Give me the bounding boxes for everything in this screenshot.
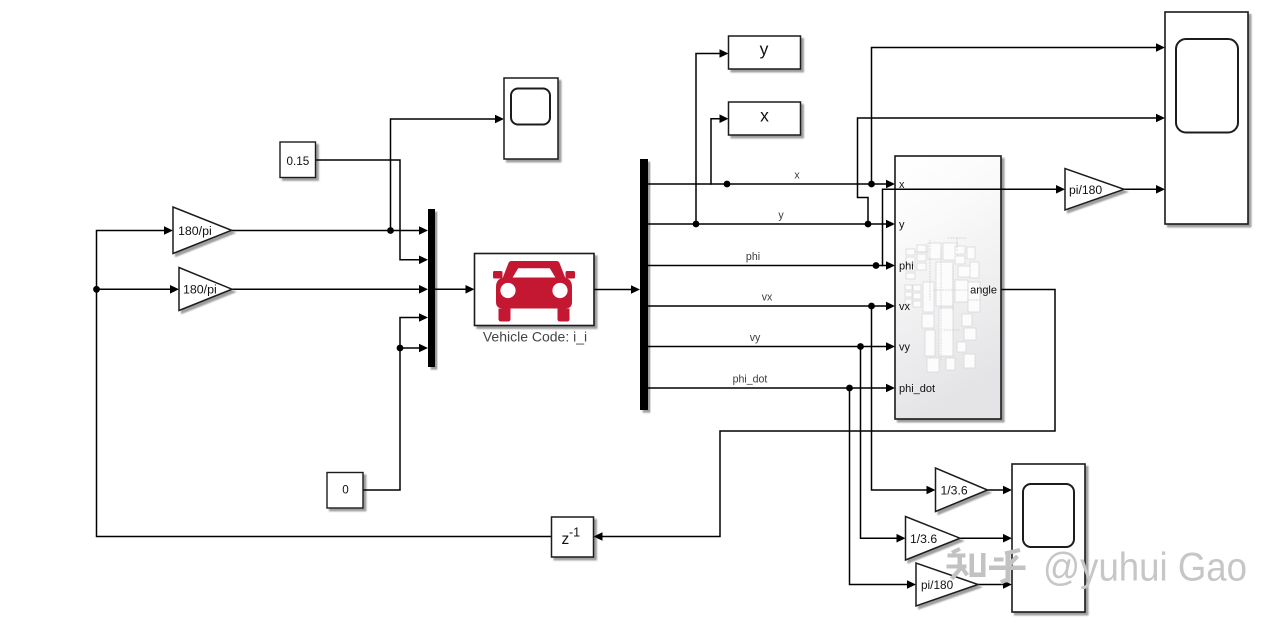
subsystem block — [895, 156, 1001, 419]
svg-text:@yuhui Gao: @yuhui Gao — [1043, 546, 1247, 590]
node 0-wire branch — [397, 345, 404, 352]
wire demux out y to subsystem — [648, 223, 887, 225]
scope block S1 (top left) — [504, 78, 558, 159]
wire gain G2 input arrowhead — [170, 285, 179, 294]
wire angle output feedback to z^-1 — [603, 290, 1055, 537]
gain 1/3.6 top — [936, 468, 988, 512]
svg-text:y: y — [760, 39, 769, 59]
svg-text:phi_dot: phi_dot — [899, 383, 935, 395]
wire branch vx to gain 1/3.6 top — [872, 306, 928, 490]
wire branch y to large scope input 2 — [858, 118, 1157, 224]
svg-text:vx: vx — [899, 301, 911, 313]
gain pi/180 top — [1065, 169, 1124, 211]
wire 0 constant up to mux inputs 4 and 5 — [363, 318, 420, 491]
wire branch phi_dot to gain pi/180 bottom — [850, 388, 909, 585]
svg-text:Vehicle Code: i_i: Vehicle Code: i_i — [483, 329, 587, 345]
svg-text:-1: -1 — [569, 526, 580, 540]
wire mux output to vehicle block — [435, 288, 466, 290]
svg-text:0: 0 — [342, 484, 349, 497]
svg-text:x: x — [760, 105, 769, 125]
wire G2 output to mux input 3 — [232, 288, 420, 290]
svg-text:x: x — [794, 170, 800, 182]
demux bar — [640, 159, 648, 410]
node vy branch — [857, 343, 864, 350]
svg-text:1/3.6: 1/3.6 — [941, 484, 968, 498]
svg-text:y: y — [778, 210, 784, 222]
node feedback branch — [93, 286, 100, 293]
wire feedback from z^-1 output left and up to gains — [97, 231, 552, 537]
scope block S2 (large right) — [1165, 12, 1248, 224]
svg-text:0.15: 0.15 — [287, 155, 310, 168]
node y branch 2 — [865, 221, 872, 228]
gain 1/3.6 bottom — [906, 517, 961, 561]
svg-text:vx: vx — [762, 292, 773, 304]
subsystem preview sketch — [905, 243, 980, 372]
wire branch to small scope — [391, 119, 496, 231]
wire G1 output to mux input 1 — [232, 230, 420, 232]
node x branch — [724, 181, 731, 188]
wire branch x to large scope input 1 — [872, 48, 1157, 185]
wire branch phi to gain pi/180 (crosses over subsystem) — [883, 189, 1057, 265]
wire gain G1 input arrowhead — [164, 226, 173, 235]
wire gain pi/180 output to large scope input 3 — [1124, 188, 1157, 190]
outport x — [729, 102, 801, 135]
wire demux out vy to subsystem — [648, 346, 887, 348]
wire demux out x to subsystem — [648, 183, 887, 185]
svg-text:y: y — [899, 219, 905, 231]
svg-text:phi: phi — [746, 251, 760, 263]
unit delay z^-1 — [552, 517, 594, 557]
svg-text:vy: vy — [750, 332, 761, 344]
constant 0.15 — [280, 142, 316, 178]
svg-text:pi/180: pi/180 — [1069, 183, 1102, 197]
node x branch 2 — [868, 181, 875, 188]
svg-text:180/pi: 180/pi — [178, 224, 212, 238]
wire demux out phi to subsystem — [648, 265, 887, 267]
vehicle block — [475, 254, 595, 326]
constant 0 — [327, 473, 363, 509]
node G1 output branch — [387, 227, 394, 234]
wire branch vy to gain 1/3.6 bottom — [861, 347, 898, 539]
svg-text:angle: angle — [970, 285, 997, 297]
scope block S3 (bottom right) — [1012, 464, 1085, 612]
gain 180/pi G1 — [173, 207, 232, 254]
wire branch x to outport x — [711, 119, 720, 184]
gain pi/180 bottom — [916, 563, 978, 606]
gain 180/pi G2 — [179, 268, 232, 311]
node phi_dot branch — [846, 385, 853, 392]
wire branch y to outport y — [696, 54, 720, 225]
wire gain outputs to bottom scope — [988, 489, 1004, 491]
svg-text:pi/180: pi/180 — [921, 578, 954, 592]
wire demux out vx to subsystem — [648, 305, 887, 307]
svg-text:1/3.6: 1/3.6 — [910, 532, 937, 546]
svg-text:180/pi: 180/pi — [183, 283, 217, 297]
wire vehicle output to demux — [594, 289, 632, 291]
watermark zhihu glyphs — [947, 547, 1026, 585]
svg-text:phi: phi — [899, 261, 914, 273]
svg-text:phi_dot: phi_dot — [733, 374, 768, 386]
node phi branch — [873, 262, 880, 269]
outport y — [729, 36, 801, 69]
node y branch — [693, 221, 700, 228]
node vx branch — [868, 303, 875, 310]
wire 0.15 constant to mux input 2 — [316, 160, 420, 260]
mux bar — [428, 209, 435, 367]
wire demux out phi_dot to subsystem — [648, 387, 887, 389]
car icon — [493, 261, 575, 322]
svg-text:vy: vy — [899, 342, 911, 354]
